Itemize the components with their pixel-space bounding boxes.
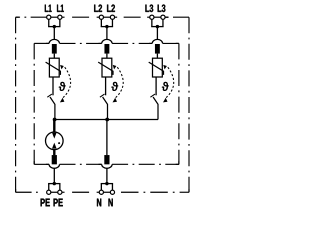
terminal L2 (right) [110, 15, 114, 19]
wire terminal link [103, 16, 110, 18]
thermal trip symbol ϑ [162, 82, 169, 91]
disconnect contact (filled) [52, 44, 57, 54]
spark gap F1 (N-PE) [46, 132, 64, 150]
module plug-in contact (bump) [152, 39, 162, 43]
disconnect contact (filled) [52, 155, 57, 164]
terminal N (right) [110, 190, 114, 194]
wire [48, 184, 60, 191]
wire [48, 19, 60, 26]
thermal disconnector switch [47, 94, 55, 119]
varistor L3-N [149, 58, 164, 77]
junction node L1 [53, 25, 56, 28]
module plug-in contact (bump) [102, 39, 112, 43]
wire [53, 54, 55, 59]
terminal L2 (left) [99, 15, 103, 19]
enclosure inner boundary / protection module (dash-dot) [34, 43, 179, 164]
wire [105, 77, 107, 95]
terminal N (left) [99, 190, 103, 194]
terminal PE (right) [58, 190, 62, 194]
terminal L1 (left) [47, 15, 51, 19]
module plug-in contact (bump) [49, 39, 59, 43]
wire [106, 54, 108, 59]
disconnect contact (filled) [155, 44, 160, 54]
module plug-in contact (bump) [49, 164, 59, 168]
label L2 L2 [94, 5, 115, 12]
wire [53, 168, 55, 184]
enclosure outer boundary (dash-dot) [16, 17, 189, 192]
disconnect contact (filled) [104, 155, 109, 164]
wire terminal link [154, 16, 161, 18]
wire [101, 184, 113, 191]
disconnect contact (filled) [104, 44, 109, 54]
thermal disconnector switch [100, 94, 108, 119]
junction node (L1/spark gap) [53, 118, 57, 122]
wire [156, 54, 158, 59]
label N N [97, 199, 113, 207]
junction node PE [53, 182, 56, 185]
wire [52, 77, 54, 95]
wire [53, 150, 55, 156]
junction node L2 [105, 25, 108, 28]
wire [53, 27, 55, 40]
thermal actuation arrow (dashed) [60, 65, 71, 103]
thermal actuation arrow (dashed) [113, 65, 124, 103]
wire N-bus [54, 119, 158, 121]
wire [101, 19, 113, 26]
wire [106, 168, 108, 184]
label L1 L1 [45, 5, 64, 12]
wire [106, 27, 108, 40]
thermal disconnector switch [150, 94, 158, 119]
thermal trip symbol ϑ [111, 82, 118, 91]
terminal L3 (right) [161, 15, 165, 19]
thermal actuation arrow (dashed) [163, 65, 174, 103]
module plug-in contact (bump) [102, 164, 112, 168]
wire terminal link [51, 16, 58, 18]
wire [156, 27, 158, 40]
label PE PE [41, 199, 63, 207]
terminal L3 (left) [150, 15, 154, 19]
junction node N [105, 182, 108, 185]
wire [53, 120, 55, 133]
varistor L2-N [98, 58, 113, 77]
wire N [106, 120, 108, 156]
junction node L3 [156, 25, 159, 28]
terminal PE (left) [47, 190, 51, 194]
wire [151, 19, 163, 26]
thermal trip symbol ϑ [59, 82, 66, 91]
junction node (L2/N) [105, 118, 109, 122]
wire terminal link [51, 191, 58, 193]
label L3 L3 [145, 5, 165, 13]
varistor L1-N [46, 58, 61, 77]
wire terminal link [103, 191, 110, 193]
wire [155, 77, 157, 95]
terminal L1 (right) [58, 15, 62, 19]
